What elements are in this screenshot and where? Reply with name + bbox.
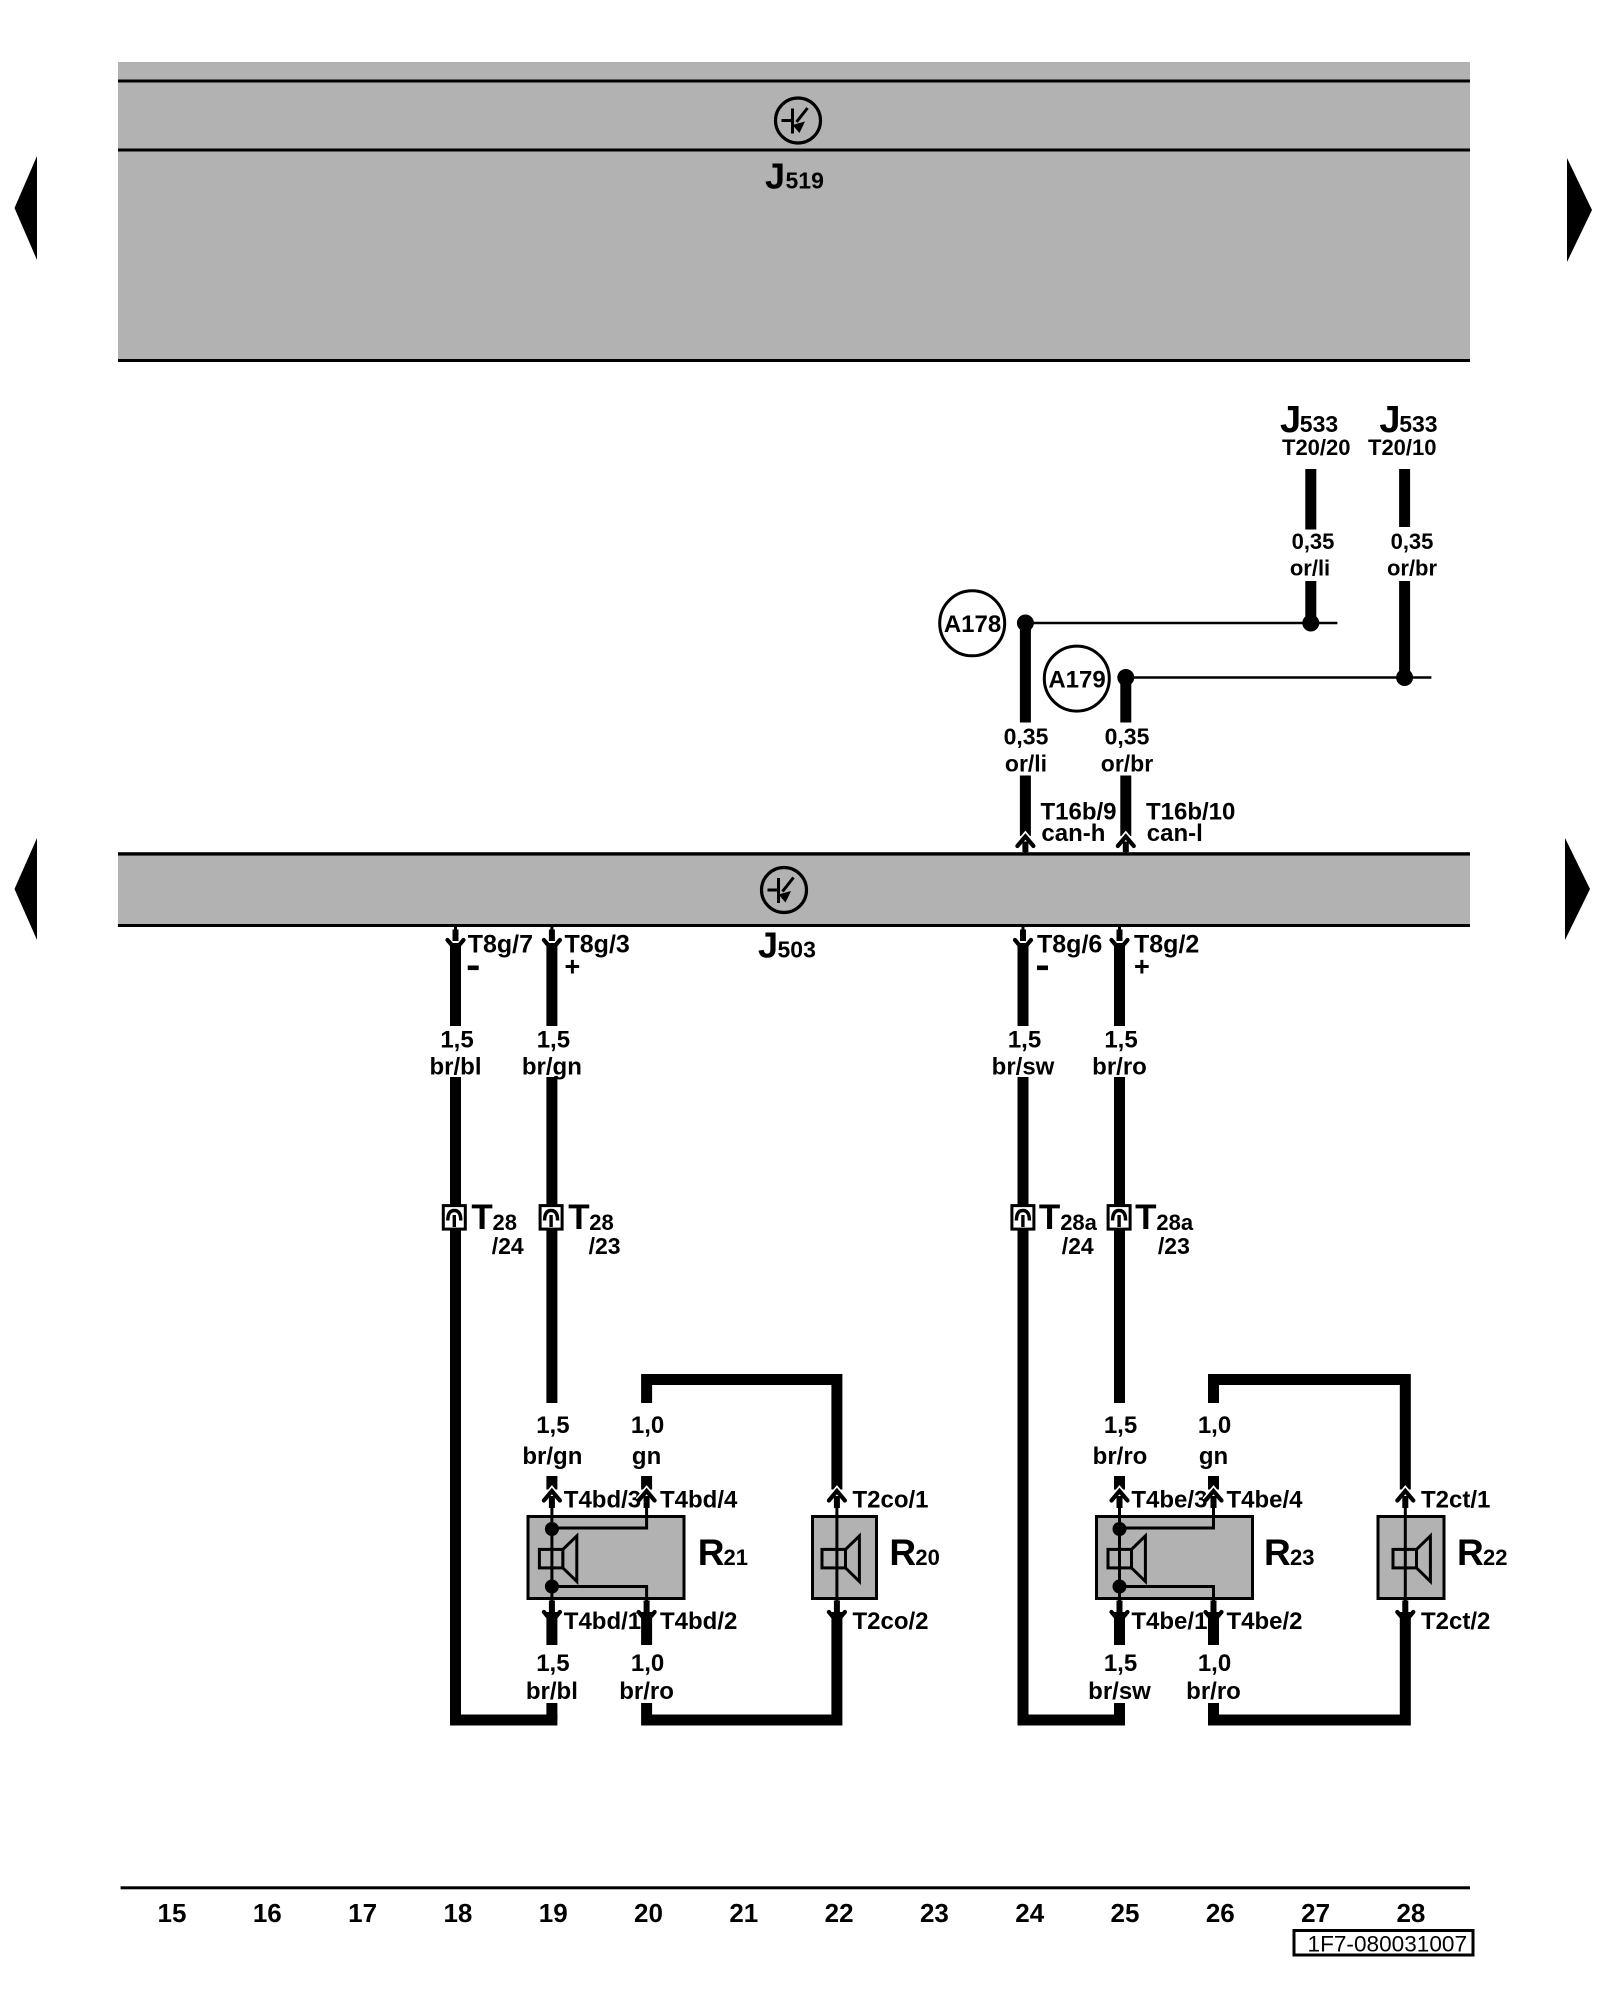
wire 1,0 gn loop T4bd/4 to T2co/1 (upper run) xyxy=(647,1380,837,1490)
node circle A178 (CAN-high wiring connection) xyxy=(940,591,1005,656)
bass speaker R23 box xyxy=(1097,1517,1253,1599)
wire 1,0 br/ro loop T4bd/2 to T2co/2 (lower run) xyxy=(647,1612,837,1720)
control unit J519 body (gray band) xyxy=(118,62,1470,362)
svg-text:19: 19 xyxy=(539,1898,568,1928)
wire 0,35 or/br A179 to J503 T16b/10 (upper segment) xyxy=(1120,678,1131,723)
R20 internal vertical line xyxy=(835,1517,838,1599)
svg-text:0,35: 0,35 xyxy=(1004,723,1049,749)
wire 0,35 or/li A178 to J503 T16b/9 (upper segment) xyxy=(1020,623,1031,723)
speaker symbol in R20 xyxy=(822,1549,846,1568)
connector arrow at pin T4be/2 xyxy=(1212,1598,1215,1608)
wire 1,0 gn into T4be/4 xyxy=(1208,1476,1219,1490)
pin T8g/2 of J503 (arrow+stub) xyxy=(1118,925,1121,939)
svg-text:T2ct/1: T2ct/1 xyxy=(1421,1487,1490,1514)
connector arrow at pin T4be/1 xyxy=(1118,1598,1121,1608)
wire CAN-low horizontal link (node A179) xyxy=(1126,676,1432,679)
svg-text:0,35: 0,35 xyxy=(1292,529,1335,554)
svg-text:R: R xyxy=(698,1532,725,1573)
polarity label minus (T8g/7) xyxy=(468,966,479,971)
current-track continuation arrow top-right xyxy=(1567,158,1592,262)
svg-text:T2co/2: T2co/2 xyxy=(853,1608,929,1635)
svg-text:28a: 28a xyxy=(1156,1210,1193,1235)
svg-text:T8g/6: T8g/6 xyxy=(1037,931,1102,959)
svg-text:1,5: 1,5 xyxy=(536,1650,569,1677)
svg-text:23: 23 xyxy=(920,1898,949,1928)
svg-text:T2co/1: T2co/1 xyxy=(853,1487,929,1514)
diagram number box xyxy=(1294,1931,1473,1956)
svg-text:A179: A179 xyxy=(1048,667,1105,694)
speaker symbol in R23 xyxy=(1108,1549,1132,1568)
svg-text:1,5: 1,5 xyxy=(1104,1412,1137,1439)
connector arrow at pin T2ct/2 xyxy=(1404,1598,1407,1608)
svg-text:T8g/7: T8g/7 xyxy=(468,931,533,959)
junction dot R21 bottom xyxy=(545,1580,559,1594)
svg-text:T2ct/2: T2ct/2 xyxy=(1421,1608,1490,1635)
current-track continuation arrow middle-left xyxy=(15,838,38,940)
svg-text:gn: gn xyxy=(1199,1443,1228,1470)
svg-text:1,0: 1,0 xyxy=(1198,1412,1231,1439)
svg-text:can-h: can-h xyxy=(1041,820,1105,847)
treble speaker R20 box xyxy=(813,1517,877,1599)
svg-text:br/ro: br/ro xyxy=(619,1678,674,1705)
control unit J503 body (gray band) xyxy=(118,856,1470,925)
svg-text:gn: gn xyxy=(632,1443,661,1470)
svg-text:T4bd/2: T4bd/2 xyxy=(660,1608,737,1635)
svg-text:T4be/2: T4be/2 xyxy=(1227,1608,1303,1635)
J519 band inner line 2 xyxy=(118,149,1470,152)
svg-text:T20/20: T20/20 xyxy=(1282,435,1351,460)
svg-text:T4be/1: T4be/1 xyxy=(1131,1608,1207,1635)
wire 1,5 br/bl below T4bd/1 (upper segment) xyxy=(546,1612,557,1645)
svg-text:J: J xyxy=(758,925,778,966)
svg-text:1,5: 1,5 xyxy=(1104,1027,1137,1054)
svg-text:J: J xyxy=(765,156,785,197)
wire 1,5 br/ro between T28a/23 and label xyxy=(1114,1077,1125,1206)
svg-text:/24: /24 xyxy=(492,1233,524,1259)
svg-text:28a: 28a xyxy=(1060,1210,1097,1235)
svg-text:20: 20 xyxy=(634,1898,663,1928)
internal connection symbol (K in circle) of J519 xyxy=(776,98,821,143)
svg-text:br/ro: br/ro xyxy=(1186,1678,1241,1705)
svg-text:24: 24 xyxy=(1015,1898,1044,1928)
svg-text:br/gn: br/gn xyxy=(522,1054,582,1081)
wire 1,0 br/ro loop T4be/2 to T2ct/2 (lower run) xyxy=(1214,1612,1406,1720)
svg-text:T: T xyxy=(568,1198,589,1237)
wire 1,5 br/sw T28a/24 down to corner and bottom link to T4be/1 xyxy=(1023,1077,1125,1720)
wire 1,0 br/ro below T4bd/2 (upper segment) xyxy=(641,1612,652,1645)
svg-text:or/br: or/br xyxy=(1101,750,1153,776)
wire 1,5 br/ro into T4be/3 xyxy=(1114,1476,1125,1490)
wire 0,35 or/br from J533 T20/10 (upper segment) xyxy=(1399,469,1410,527)
svg-text:br/ro: br/ro xyxy=(1093,1443,1148,1470)
pin T8g/7 of J503 (arrow+stub) xyxy=(454,925,457,939)
svg-text:T: T xyxy=(471,1198,492,1237)
svg-text:T4bd/1: T4bd/1 xyxy=(564,1608,641,1635)
svg-text:1,5: 1,5 xyxy=(1104,1650,1137,1677)
J519 band inner line 1 xyxy=(118,80,1470,83)
svg-text:23: 23 xyxy=(1290,1545,1314,1570)
wire 0,35 or/br A179 to J503 T16b/10 (lower segment) xyxy=(1120,776,1131,837)
connector arrow at pin T2co/1 xyxy=(835,1506,838,1518)
svg-text:17: 17 xyxy=(348,1898,377,1928)
wire 0,35 or/br from J533 T20/10 (lower segment) xyxy=(1399,581,1410,678)
svg-text:533: 533 xyxy=(1300,411,1338,437)
svg-text:1,0: 1,0 xyxy=(1198,1650,1231,1677)
svg-text:/23: /23 xyxy=(1158,1233,1190,1259)
svg-text:21: 21 xyxy=(724,1545,748,1570)
svg-text:1,0: 1,0 xyxy=(631,1650,664,1677)
svg-text:or/br: or/br xyxy=(1387,556,1438,581)
connector arrow at pin T4bd/2 xyxy=(645,1598,648,1608)
connector arrow at pin T4be/4 xyxy=(1212,1506,1215,1518)
current-track continuation arrow top-left xyxy=(15,156,38,260)
junction dot R23 top xyxy=(1113,1522,1127,1536)
current-track continuation arrow middle-right xyxy=(1565,838,1590,940)
wire 1,5 br/gn into T4bd/3 xyxy=(546,1476,557,1490)
R21 internal link bottom (T4bd/1 to T4bd/2) xyxy=(552,1587,647,1599)
J503 band bottom border line xyxy=(118,924,1470,927)
junction dot at A178 xyxy=(1017,615,1034,632)
connector symbol T28/23 (square with plug symbol) xyxy=(540,1206,562,1230)
svg-text:T20/10: T20/10 xyxy=(1368,435,1437,460)
J519 band bottom border line xyxy=(118,359,1470,362)
svg-text:can-l: can-l xyxy=(1147,820,1203,847)
wire 1,5 br/bl below label to bottom link xyxy=(546,1703,557,1720)
junction dot at A179 xyxy=(1117,669,1134,686)
junction dot J533 or/li joins A178 link xyxy=(1302,615,1319,632)
wire 0,35 or/li from J533 T20/20 (lower segment) xyxy=(1305,581,1316,624)
wire 1,5 br/sw J503 T8g/6 down (upper segment) xyxy=(1018,943,1029,1026)
current track ruler line xyxy=(121,1886,1470,1889)
svg-text:25: 25 xyxy=(1111,1898,1140,1928)
connector arrow at pin T4be/3 xyxy=(1118,1506,1121,1518)
svg-text:16: 16 xyxy=(253,1898,282,1928)
connector arrow at pin T4bd/3 xyxy=(550,1506,553,1518)
svg-text:1,0: 1,0 xyxy=(631,1412,664,1439)
svg-text:1,5: 1,5 xyxy=(440,1027,473,1054)
svg-text:br/sw: br/sw xyxy=(1088,1678,1151,1705)
svg-text:br/gn: br/gn xyxy=(522,1443,582,1470)
wire 1,5 br/ro above R23 (segment) xyxy=(1114,1229,1125,1403)
svg-text:+: + xyxy=(565,952,581,982)
svg-text:15: 15 xyxy=(158,1898,187,1928)
wire 1,5 br/gn J503 T8g/3 down (upper segment) xyxy=(546,943,557,1026)
R22 internal vertical line xyxy=(1404,1517,1407,1599)
svg-text:1,5: 1,5 xyxy=(1008,1027,1041,1054)
svg-text:+: + xyxy=(1134,952,1150,982)
svg-text:503: 503 xyxy=(778,937,816,963)
junction dot R23 bottom xyxy=(1113,1580,1127,1594)
svg-text:R: R xyxy=(1264,1532,1291,1573)
svg-text:0,35: 0,35 xyxy=(1105,723,1150,749)
pin T8g/3 of J503 (arrow+stub) xyxy=(550,925,553,939)
wire 1,0 br/ro below T4be/2 (upper segment) xyxy=(1208,1612,1219,1645)
connector arrow at J503 pin T16b/9 xyxy=(1024,844,1027,854)
connector arrow at pin T2ct/1 xyxy=(1404,1506,1407,1518)
svg-text:T: T xyxy=(1039,1198,1060,1237)
svg-text:or/li: or/li xyxy=(1290,556,1330,581)
svg-text:22: 22 xyxy=(1483,1545,1507,1570)
svg-text:br/bl: br/bl xyxy=(526,1678,578,1705)
R21 internal link top (T4bd/3 to T4bd/4) xyxy=(552,1517,647,1529)
wire 1,5 br/bl T28/24 down to corner and bottom link to T4bd/1 xyxy=(456,1077,558,1720)
J503 band top border line xyxy=(118,852,1470,855)
svg-text:18: 18 xyxy=(443,1898,472,1928)
svg-text:28: 28 xyxy=(589,1210,613,1235)
svg-text:22: 22 xyxy=(825,1898,854,1928)
wire 0,35 or/li from J533 T20/20 (upper segment) xyxy=(1305,469,1316,530)
svg-text:1,5: 1,5 xyxy=(537,1027,570,1054)
svg-text:/23: /23 xyxy=(589,1233,621,1259)
svg-text:T: T xyxy=(1135,1198,1156,1237)
svg-text:519: 519 xyxy=(786,168,824,194)
R23 internal vertical line xyxy=(1118,1528,1121,1587)
internal connection symbol (K in circle) of J503 xyxy=(762,868,807,913)
polarity label minus (T8g/6) xyxy=(1037,966,1048,971)
svg-text:or/li: or/li xyxy=(1005,750,1047,776)
wire 1,5 br/sw below T4be/1 (upper segment) xyxy=(1114,1612,1125,1645)
svg-text:1,5: 1,5 xyxy=(536,1412,569,1439)
svg-text:26: 26 xyxy=(1206,1898,1235,1928)
bass speaker R21 box xyxy=(528,1517,684,1599)
svg-text:20: 20 xyxy=(915,1545,939,1570)
svg-text:27: 27 xyxy=(1301,1898,1330,1928)
pin T8g/6 of J503 (arrow+stub) xyxy=(1022,925,1025,939)
wire 1,5 br/bl J503 T8g/7 down (upper segment) xyxy=(450,943,461,1026)
pin stub T16b/10 xyxy=(1123,842,1129,853)
connector arrow at pin T4bd/1 xyxy=(550,1598,553,1608)
svg-text:1F7-080031007: 1F7-080031007 xyxy=(1308,1932,1468,1957)
svg-text:0,35: 0,35 xyxy=(1391,529,1434,554)
node circle A179 (CAN-low wiring connection) xyxy=(1044,646,1109,711)
svg-text:/24: /24 xyxy=(1062,1233,1094,1259)
wire 1,5 br/ro J503 T8g/2 down (upper segment) xyxy=(1114,943,1125,1026)
svg-text:br/sw: br/sw xyxy=(992,1054,1055,1081)
svg-text:28: 28 xyxy=(1396,1898,1425,1928)
wire 1,5 br/sw below label to bottom link xyxy=(1114,1703,1125,1720)
wire 1,5 br/gn between T28/23 and label xyxy=(546,1077,557,1206)
wire 1,5 br/gn above R21 (segment) xyxy=(546,1229,557,1403)
svg-text:21: 21 xyxy=(729,1898,758,1928)
svg-text:T4bd/3: T4bd/3 xyxy=(564,1487,641,1514)
connector symbol T28a/23 (square with plug symbol) xyxy=(1108,1206,1130,1230)
connector symbol T28a/24 (square with plug symbol) xyxy=(1012,1206,1034,1230)
junction dot J533 or/br joins A179 link xyxy=(1396,669,1413,686)
pin stub T16b/9 xyxy=(1022,842,1028,853)
R21 internal vertical line xyxy=(550,1528,553,1587)
connector arrow at J503 pin T16b/10 xyxy=(1124,844,1127,854)
svg-text:A178: A178 xyxy=(944,611,1001,638)
junction dot R21 top xyxy=(545,1522,559,1536)
treble speaker R22 box xyxy=(1378,1517,1444,1599)
connector arrow at pin T2co/2 xyxy=(835,1598,838,1608)
svg-text:28: 28 xyxy=(493,1210,517,1235)
connector symbol T28/24 (square with plug symbol) xyxy=(443,1206,465,1230)
svg-text:R: R xyxy=(889,1532,916,1573)
wire 0,35 or/li A178 to J503 T16b/9 (lower segment) xyxy=(1020,776,1031,837)
speaker symbol in R21 xyxy=(539,1549,563,1568)
wire 1,0 gn loop T4be/4 to T2ct/1 (upper run) xyxy=(1214,1380,1406,1490)
svg-text:533: 533 xyxy=(1399,411,1437,437)
R23 internal link bottom (T4be/1 to T4be/2) xyxy=(1120,1587,1214,1599)
wire 1,0 gn into T4bd/4 xyxy=(641,1476,652,1490)
wire CAN-high horizontal link (node A178) xyxy=(1025,622,1337,625)
svg-text:T4be/3: T4be/3 xyxy=(1131,1487,1207,1514)
R23 internal link top (T4be/3 to T4be/4) xyxy=(1120,1517,1214,1529)
svg-text:br/ro: br/ro xyxy=(1092,1054,1147,1081)
connector arrow at pin T4bd/4 xyxy=(645,1506,648,1518)
svg-text:T4be/4: T4be/4 xyxy=(1227,1487,1304,1514)
svg-text:br/bl: br/bl xyxy=(430,1054,482,1081)
speaker symbol in R22 xyxy=(1393,1549,1417,1568)
svg-text:R: R xyxy=(1457,1532,1484,1573)
svg-text:T4bd/4: T4bd/4 xyxy=(660,1487,738,1514)
